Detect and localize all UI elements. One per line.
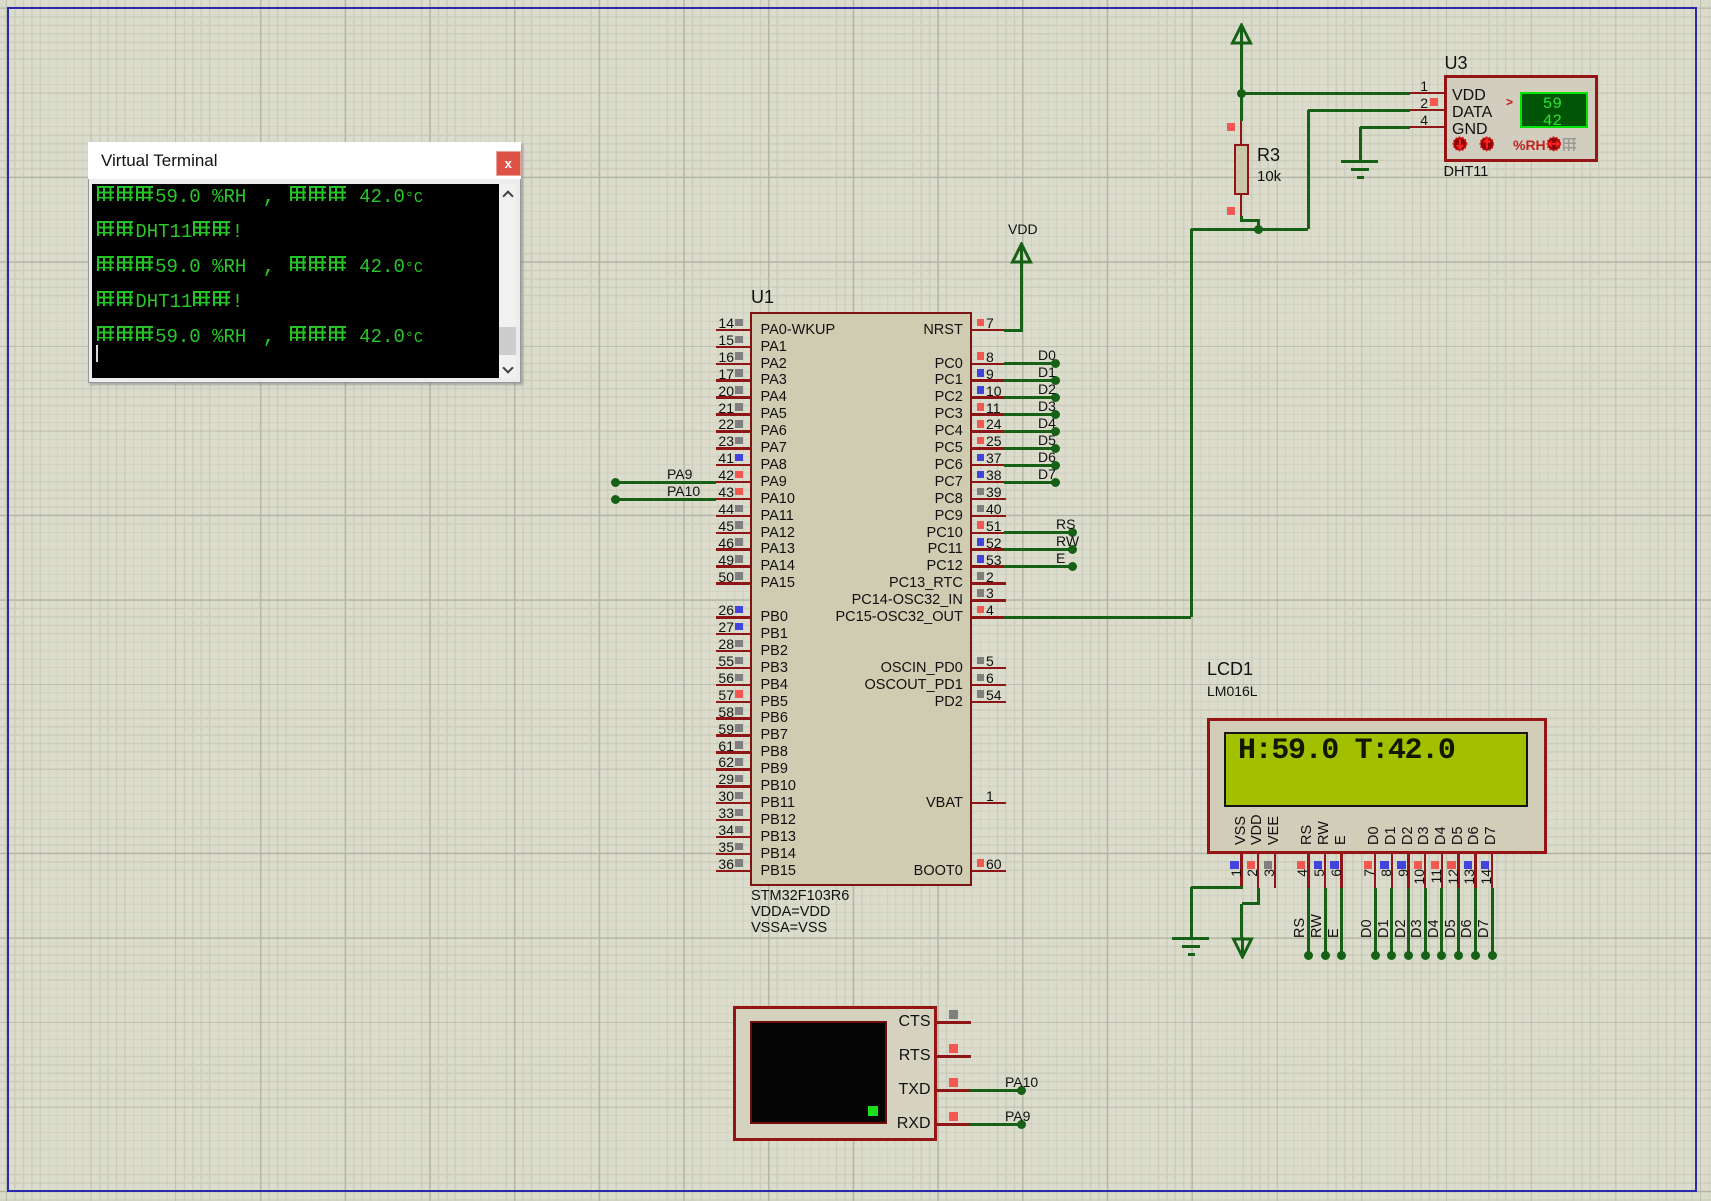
- power symbol VDD (above R3): [1229, 23, 1254, 47]
- net label D2 (rotated): [1394, 896, 1409, 938]
- LCD1 pin D7 (14): [1491, 854, 1494, 888]
- U1 pin OSCOUT_PD1 (6): [972, 684, 1006, 687]
- LCD1 pin D3 (10): [1424, 854, 1427, 888]
- U1 pin PA4 (20): [716, 396, 750, 399]
- virtual terminal scrollbar: [499, 184, 516, 378]
- net label VDD: [1008, 222, 1038, 236]
- LCD1 pin RS (4): [1307, 854, 1310, 888]
- U1 pin PC8 (39): [972, 498, 1006, 501]
- U1 pin PB7 (59): [716, 734, 750, 737]
- virtual terminal screen cursor block: [868, 1106, 878, 1116]
- net label D4: [1038, 416, 1056, 430]
- U3 value label DHT11: [1444, 165, 1489, 180]
- LCD1 screen: [1224, 732, 1528, 807]
- junction dot DATA node: [1254, 225, 1263, 234]
- terminal text line 3: [96, 256, 423, 277]
- U1 pin PC14-OSC32_IN (3): [972, 599, 1006, 602]
- wire DATA node vertical to DHT11 DATA: [1307, 110, 1310, 229]
- U1 pin PA13 (46): [716, 548, 750, 551]
- junction terminal PA9: [611, 478, 620, 487]
- wire LCD VDD to power arrow: [1257, 888, 1260, 904]
- U1 pin PA3 (17): [716, 379, 750, 382]
- wire LCD D6 down to bus terminal: [1474, 888, 1477, 955]
- virtual terminal title text: [101, 152, 218, 169]
- LCD1 pin D1 (8): [1391, 854, 1394, 888]
- terminal dot D3: [1051, 410, 1060, 419]
- terminal dot E: [1068, 562, 1077, 571]
- terminal dot D0: [1051, 359, 1060, 368]
- LCD1 pin D2 (9): [1407, 854, 1410, 888]
- ground symbol (LCD): [1172, 937, 1209, 940]
- U3 DATA pin square: [1430, 98, 1438, 106]
- wire PC7 to D7: [1004, 481, 1055, 484]
- U1 pin PB5 (57): [716, 701, 750, 704]
- net label D1: [1038, 365, 1056, 379]
- U1 pin PC6 (37): [972, 464, 1006, 467]
- U3 display humidity value 59: [1520, 96, 1562, 112]
- terminal dot D0: [1371, 951, 1380, 960]
- terminal dot D5: [1454, 951, 1463, 960]
- U1 pin PD2 (54): [972, 701, 1006, 704]
- U3 %RH label: [1513, 138, 1546, 152]
- LCD1 pin VDD (2): [1257, 854, 1260, 888]
- terminal dot E: [1337, 951, 1346, 960]
- terminal dot D1: [1387, 951, 1396, 960]
- terminal dot D2: [1404, 951, 1413, 960]
- U1 pin PB0 (26): [716, 616, 750, 619]
- wire DATA node horizontal: [1191, 228, 1308, 231]
- wire PC12 to E: [1004, 565, 1072, 568]
- wire PC10 to RS: [1004, 531, 1072, 534]
- U1 pin PC0 (8): [972, 363, 1006, 366]
- U1 pin OSCIN_PD0 (5): [972, 667, 1006, 670]
- power symbol VDD-down (LCD): [1230, 935, 1255, 959]
- LCD1 pin D5 (12): [1457, 854, 1460, 888]
- U1 pin PB13 (34): [716, 836, 750, 839]
- net label PA9: [1005, 1109, 1030, 1123]
- scrollbar up arrow: [502, 190, 513, 201]
- U3 display temperature value 42: [1520, 113, 1562, 129]
- wire PC6 to D6: [1004, 464, 1055, 467]
- U1 pin PC4 (24): [972, 430, 1006, 433]
- terminal dot RS: [1068, 528, 1077, 537]
- U1 pin PA0-WKUP (14): [716, 329, 750, 332]
- net label D5: [1038, 433, 1056, 447]
- wire LCD D1 down to bus terminal: [1390, 888, 1393, 955]
- U1 pin PA6 (22): [716, 430, 750, 433]
- wire PC0 to D0: [1004, 362, 1055, 365]
- net label D4 (rotated): [1427, 896, 1442, 938]
- U1 pin PC5 (25): [972, 447, 1006, 450]
- sensor U3 DHT11 body: [1444, 75, 1598, 162]
- U3 display pointer mark: [1506, 96, 1513, 108]
- U1 pin PA10 (43): [716, 498, 750, 501]
- terminal dot D1: [1051, 376, 1060, 385]
- U3 pin DATA (2): [1410, 109, 1444, 112]
- U3 DHT11 green display: [1520, 92, 1588, 128]
- LCD1 pin D6 (13): [1474, 854, 1477, 888]
- terminal dot D6: [1051, 461, 1060, 470]
- U1 pin PB14 (35): [716, 853, 750, 856]
- LCD1 pin VSS (1): [1240, 854, 1243, 888]
- virtual terminal instrument body: [733, 1006, 937, 1141]
- U1 pin PA2 (16): [716, 363, 750, 366]
- U1 pin VBAT (1): [972, 802, 1006, 805]
- U1 pin PC12 (53): [972, 565, 1006, 568]
- wire LCD RS down to bus terminal: [1307, 888, 1310, 955]
- wire LCD VSS to ground: [1191, 886, 1243, 889]
- terminal dot D3: [1421, 951, 1430, 960]
- U1 value labels STM32F103R6 / VDDA=VDD / VSSA=VSS: [751, 889, 849, 904]
- LCD1 pin RW (5): [1324, 854, 1327, 888]
- virtual terminal popup window: [88, 142, 521, 383]
- ground symbol (DHT11): [1341, 160, 1378, 163]
- wire VDD arrow down to junction: [1240, 45, 1243, 93]
- U1 pin PA12 (45): [716, 532, 750, 535]
- terminal dot D7: [1488, 951, 1497, 960]
- terminal pin RTS: [937, 1055, 971, 1058]
- power symbol VDD (top of U1): [1009, 242, 1034, 266]
- net label D5 (rotated): [1444, 896, 1459, 938]
- U1 pin PC9 (40): [972, 515, 1006, 518]
- microcontroller U1 body: [750, 312, 972, 887]
- net label RS: [1056, 517, 1075, 531]
- wire PC2 to D2: [1004, 396, 1055, 399]
- wire VDD junction to DHT11 VDD pin: [1241, 92, 1410, 95]
- net label E: [1056, 551, 1065, 565]
- wire PC15-OSC32_OUT to DHT11 DATA (horizontal): [1004, 616, 1191, 619]
- net label D6 (rotated): [1460, 896, 1475, 938]
- net label RW: [1056, 534, 1079, 548]
- wire DHT11 GND to ground: [1360, 126, 1410, 129]
- U1 reference label: [751, 288, 774, 306]
- U1 pin PA11 (44): [716, 515, 750, 518]
- terminal cursor: [96, 345, 98, 362]
- LCD1 screen text H:59.0 T:42.0: [1238, 736, 1455, 766]
- wire LCD D3 down to bus terminal: [1424, 888, 1427, 955]
- terminal dot PA10: [1017, 1086, 1026, 1095]
- U3 reference label: [1445, 54, 1468, 72]
- junction dot VDD node: [1237, 89, 1246, 98]
- wire LCD D0 down to bus terminal: [1374, 888, 1377, 955]
- LCD1 value label LM016L: [1207, 684, 1258, 698]
- U1 pin BOOT0 (60): [972, 870, 1006, 873]
- U1 pin PC10 (51): [972, 532, 1006, 535]
- U1 pin PA14 (49): [716, 565, 750, 568]
- U1 pin PC15-OSC32_OUT (4): [972, 616, 1006, 619]
- net label PA10: [1005, 1075, 1038, 1089]
- wire NRST to VDD: [1004, 329, 1023, 332]
- terminal dot D5: [1051, 444, 1060, 453]
- U1 pin PC1 (9): [972, 379, 1006, 382]
- U1 pin PB8 (61): [716, 751, 750, 754]
- net label D0 (rotated): [1360, 896, 1375, 938]
- U1 pin PC11 (52): [972, 548, 1006, 551]
- wire PA9 net: [615, 481, 716, 484]
- virtual terminal screen area: [92, 184, 499, 378]
- U1 pin NRST (7): [972, 329, 1006, 332]
- U3 grey CJK mode glyph: [1563, 138, 1576, 156]
- wire LCD D5 down to bus terminal: [1457, 888, 1460, 955]
- R3 reference label: [1257, 146, 1280, 164]
- wire PC1 to D1: [1004, 379, 1055, 382]
- U1 pin PB3 (55): [716, 667, 750, 670]
- U1 pin PA15 (50): [716, 582, 750, 585]
- wire PC5 to D5: [1004, 447, 1055, 450]
- U1 pin PC2 (10): [972, 396, 1006, 399]
- net label D6: [1038, 450, 1056, 464]
- terminal dot D4: [1051, 427, 1060, 436]
- resistor R3 bottom stub: [1240, 195, 1243, 216]
- wire PC3 to D3: [1004, 413, 1055, 416]
- wire LCD D2 down to bus terminal: [1407, 888, 1410, 955]
- terminal dot RW: [1068, 545, 1077, 554]
- R3 value label 10k: [1257, 169, 1281, 184]
- LCD1 pin D4 (11): [1441, 854, 1444, 888]
- terminal dot D4: [1437, 951, 1446, 960]
- U3 button up-arrow: [1479, 136, 1495, 152]
- U1 pin PA1 (15): [716, 346, 750, 349]
- U3 button down-arrow: [1452, 136, 1468, 152]
- resistor R3 body: [1234, 144, 1249, 195]
- wire TXD to PA10: [970, 1089, 1021, 1092]
- terminal pin RXD: [937, 1123, 971, 1126]
- scrollbar down arrow: [502, 362, 513, 373]
- terminal dot D2: [1051, 393, 1060, 402]
- net label D1 (rotated): [1377, 896, 1392, 938]
- resistor R3 bottom pin square: [1227, 207, 1235, 215]
- LCD1 pin E (6): [1340, 854, 1343, 888]
- net label D0: [1038, 348, 1056, 362]
- U3 pin VDD (1): [1410, 92, 1444, 95]
- U1 pin PC7 (38): [972, 481, 1006, 484]
- virtual terminal instrument screen: [750, 1021, 887, 1124]
- wire PC11 to RW: [1004, 548, 1072, 551]
- terminal pin CTS: [937, 1021, 971, 1024]
- terminal dot PA9: [1017, 1120, 1026, 1129]
- LCD1 pin VEE (3): [1274, 854, 1277, 888]
- virtual terminal title bar: [88, 142, 521, 179]
- LCD1 reference label: [1207, 660, 1253, 678]
- net label RW (rotated): [1310, 896, 1325, 938]
- net label PA10: [667, 484, 700, 498]
- wire RXD to PA9: [970, 1123, 1021, 1126]
- virtual terminal close button: [496, 151, 521, 176]
- U1 pin PC3 (11): [972, 413, 1006, 416]
- net label PA9: [667, 467, 692, 481]
- wire R3 bottom jog: [1240, 216, 1243, 222]
- net label D7: [1038, 467, 1056, 481]
- U1 pin PB12 (33): [716, 819, 750, 822]
- U1 pin PA9 (42): [716, 481, 750, 484]
- net label RS (rotated): [1293, 896, 1308, 938]
- resistor R3 top stub: [1240, 121, 1243, 144]
- wire LCD RW down to bus terminal: [1324, 888, 1327, 955]
- wire LCD E down to bus terminal: [1340, 888, 1343, 955]
- terminal dot D6: [1471, 951, 1480, 960]
- U1 pin PB11 (30): [716, 802, 750, 805]
- U3 pin GND (4): [1410, 126, 1444, 129]
- net label E (rotated): [1327, 896, 1342, 938]
- U1 pin PB10 (29): [716, 785, 750, 788]
- U1 pin PB9 (62): [716, 768, 750, 771]
- terminal pin TXD: [937, 1089, 971, 1092]
- LCD1 pin D0 (7): [1374, 854, 1377, 888]
- terminal dot D7: [1051, 478, 1060, 487]
- U1 pin PB1 (27): [716, 633, 750, 636]
- display LCD1 body: [1207, 718, 1547, 855]
- wire PC4 to D4: [1004, 430, 1055, 433]
- U1 pin PC13_RTC (2): [972, 582, 1006, 585]
- terminal dot RS: [1304, 951, 1313, 960]
- U3 button left-right-arrow: [1546, 136, 1562, 152]
- U1 pin PB4 (56): [716, 684, 750, 687]
- net label D3 (rotated): [1410, 896, 1425, 938]
- terminal text line 2: [96, 221, 243, 240]
- terminal text line 5: [96, 326, 423, 347]
- net label D7 (rotated): [1477, 896, 1492, 938]
- net label D2: [1038, 382, 1056, 396]
- U1 pin PA7 (23): [716, 447, 750, 450]
- resistor R3 top pin square: [1227, 123, 1235, 131]
- junction terminal PA10: [611, 495, 620, 504]
- terminal dot RW: [1321, 951, 1330, 960]
- wire junction to R3 top: [1240, 93, 1243, 121]
- U1 pin PB2 (28): [716, 650, 750, 653]
- scrollbar thumb: [499, 327, 516, 355]
- U1 pin PB6 (58): [716, 717, 750, 720]
- terminal text line 1: [96, 186, 423, 207]
- net label D3: [1038, 399, 1056, 413]
- wire LCD D4 down to bus terminal: [1440, 888, 1443, 955]
- wire PC15-OSC32_OUT to DHT11 DATA (vertical riser): [1190, 229, 1193, 617]
- U1 pin PA8 (41): [716, 464, 750, 467]
- wire PA10 net: [615, 498, 716, 501]
- U1 pin PB15 (36): [716, 870, 750, 873]
- wire LCD D7 down to bus terminal: [1491, 888, 1494, 955]
- terminal text line 4: [96, 291, 243, 310]
- U1 pin PA5 (21): [716, 413, 750, 416]
